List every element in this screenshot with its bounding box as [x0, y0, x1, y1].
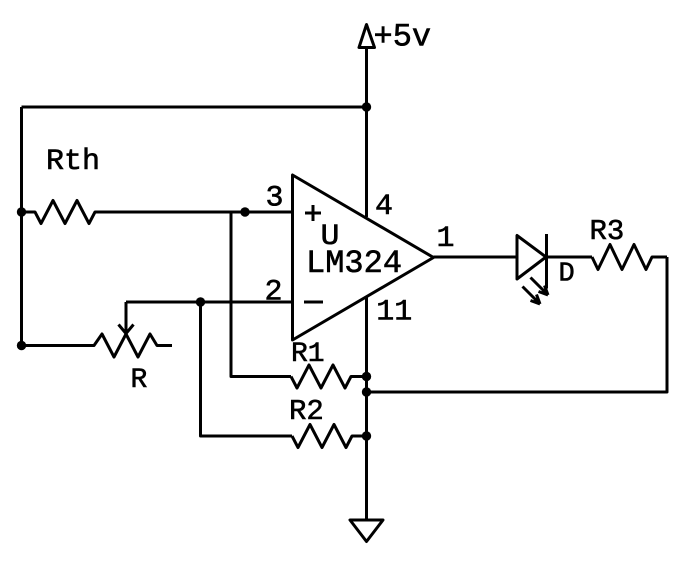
node: junction +5v rail: [362, 102, 371, 111]
op-amp minus input mark: [304, 301, 323, 304]
wire: left vertical rail: [20, 107, 23, 346]
potentiometer R body: [22, 334, 173, 357]
svg-text:Rth: Rth: [46, 145, 100, 179]
op-amp U1 triangle: [293, 175, 434, 340]
svg-text:+5v: +5v: [374, 19, 432, 56]
resistor R2: [292, 425, 367, 448]
diode D LED arrow 2: [523, 287, 541, 305]
wire: pin3 node down to R1: [231, 212, 291, 377]
svg-text:4: 4: [375, 190, 393, 224]
wire: +5v vertical to op-amp pin 4: [365, 48, 368, 218]
svg-text:R2: R2: [289, 395, 324, 428]
node: R2 right: [362, 431, 371, 440]
svg-text:LM324: LM324: [306, 245, 402, 282]
node: pot left: [17, 341, 26, 350]
wire: pin2 node down to R2: [201, 302, 293, 436]
op-amp plus input mark: [305, 205, 321, 221]
node: R1 right: [362, 372, 371, 381]
node: Rth left: [17, 207, 26, 216]
svg-text:D: D: [559, 260, 575, 290]
resistor R1: [291, 365, 367, 388]
ground: [350, 520, 383, 542]
node: feedback junction: [362, 387, 371, 396]
svg-text:3: 3: [266, 182, 284, 216]
wire: diode to R3: [547, 256, 593, 259]
svg-text:R1: R1: [291, 339, 325, 370]
potentiometer R wiper arrow: [125, 302, 128, 331]
power symbol +5v: [359, 25, 375, 48]
diode D LED arrow 1: [531, 278, 549, 296]
wire: pin 11 down to ground: [365, 297, 368, 521]
node: pin3 junction: [240, 207, 249, 216]
wire: feedback right side: [367, 257, 668, 392]
svg-text:2: 2: [265, 276, 283, 310]
svg-text:R: R: [131, 365, 148, 396]
wire: top rail horizontal: [22, 106, 367, 109]
resistor Rth: [22, 201, 293, 224]
node: pin2 junction: [196, 297, 205, 306]
diode D cathode bar: [545, 234, 548, 289]
diode D body: [517, 236, 546, 280]
svg-text:11: 11: [376, 296, 412, 330]
wire: wiper to pin2 node: [126, 301, 292, 304]
resistor R3: [592, 245, 667, 270]
svg-text:R3: R3: [590, 215, 625, 248]
svg-text:1: 1: [437, 222, 455, 256]
wire: op-amp output: [434, 256, 518, 259]
